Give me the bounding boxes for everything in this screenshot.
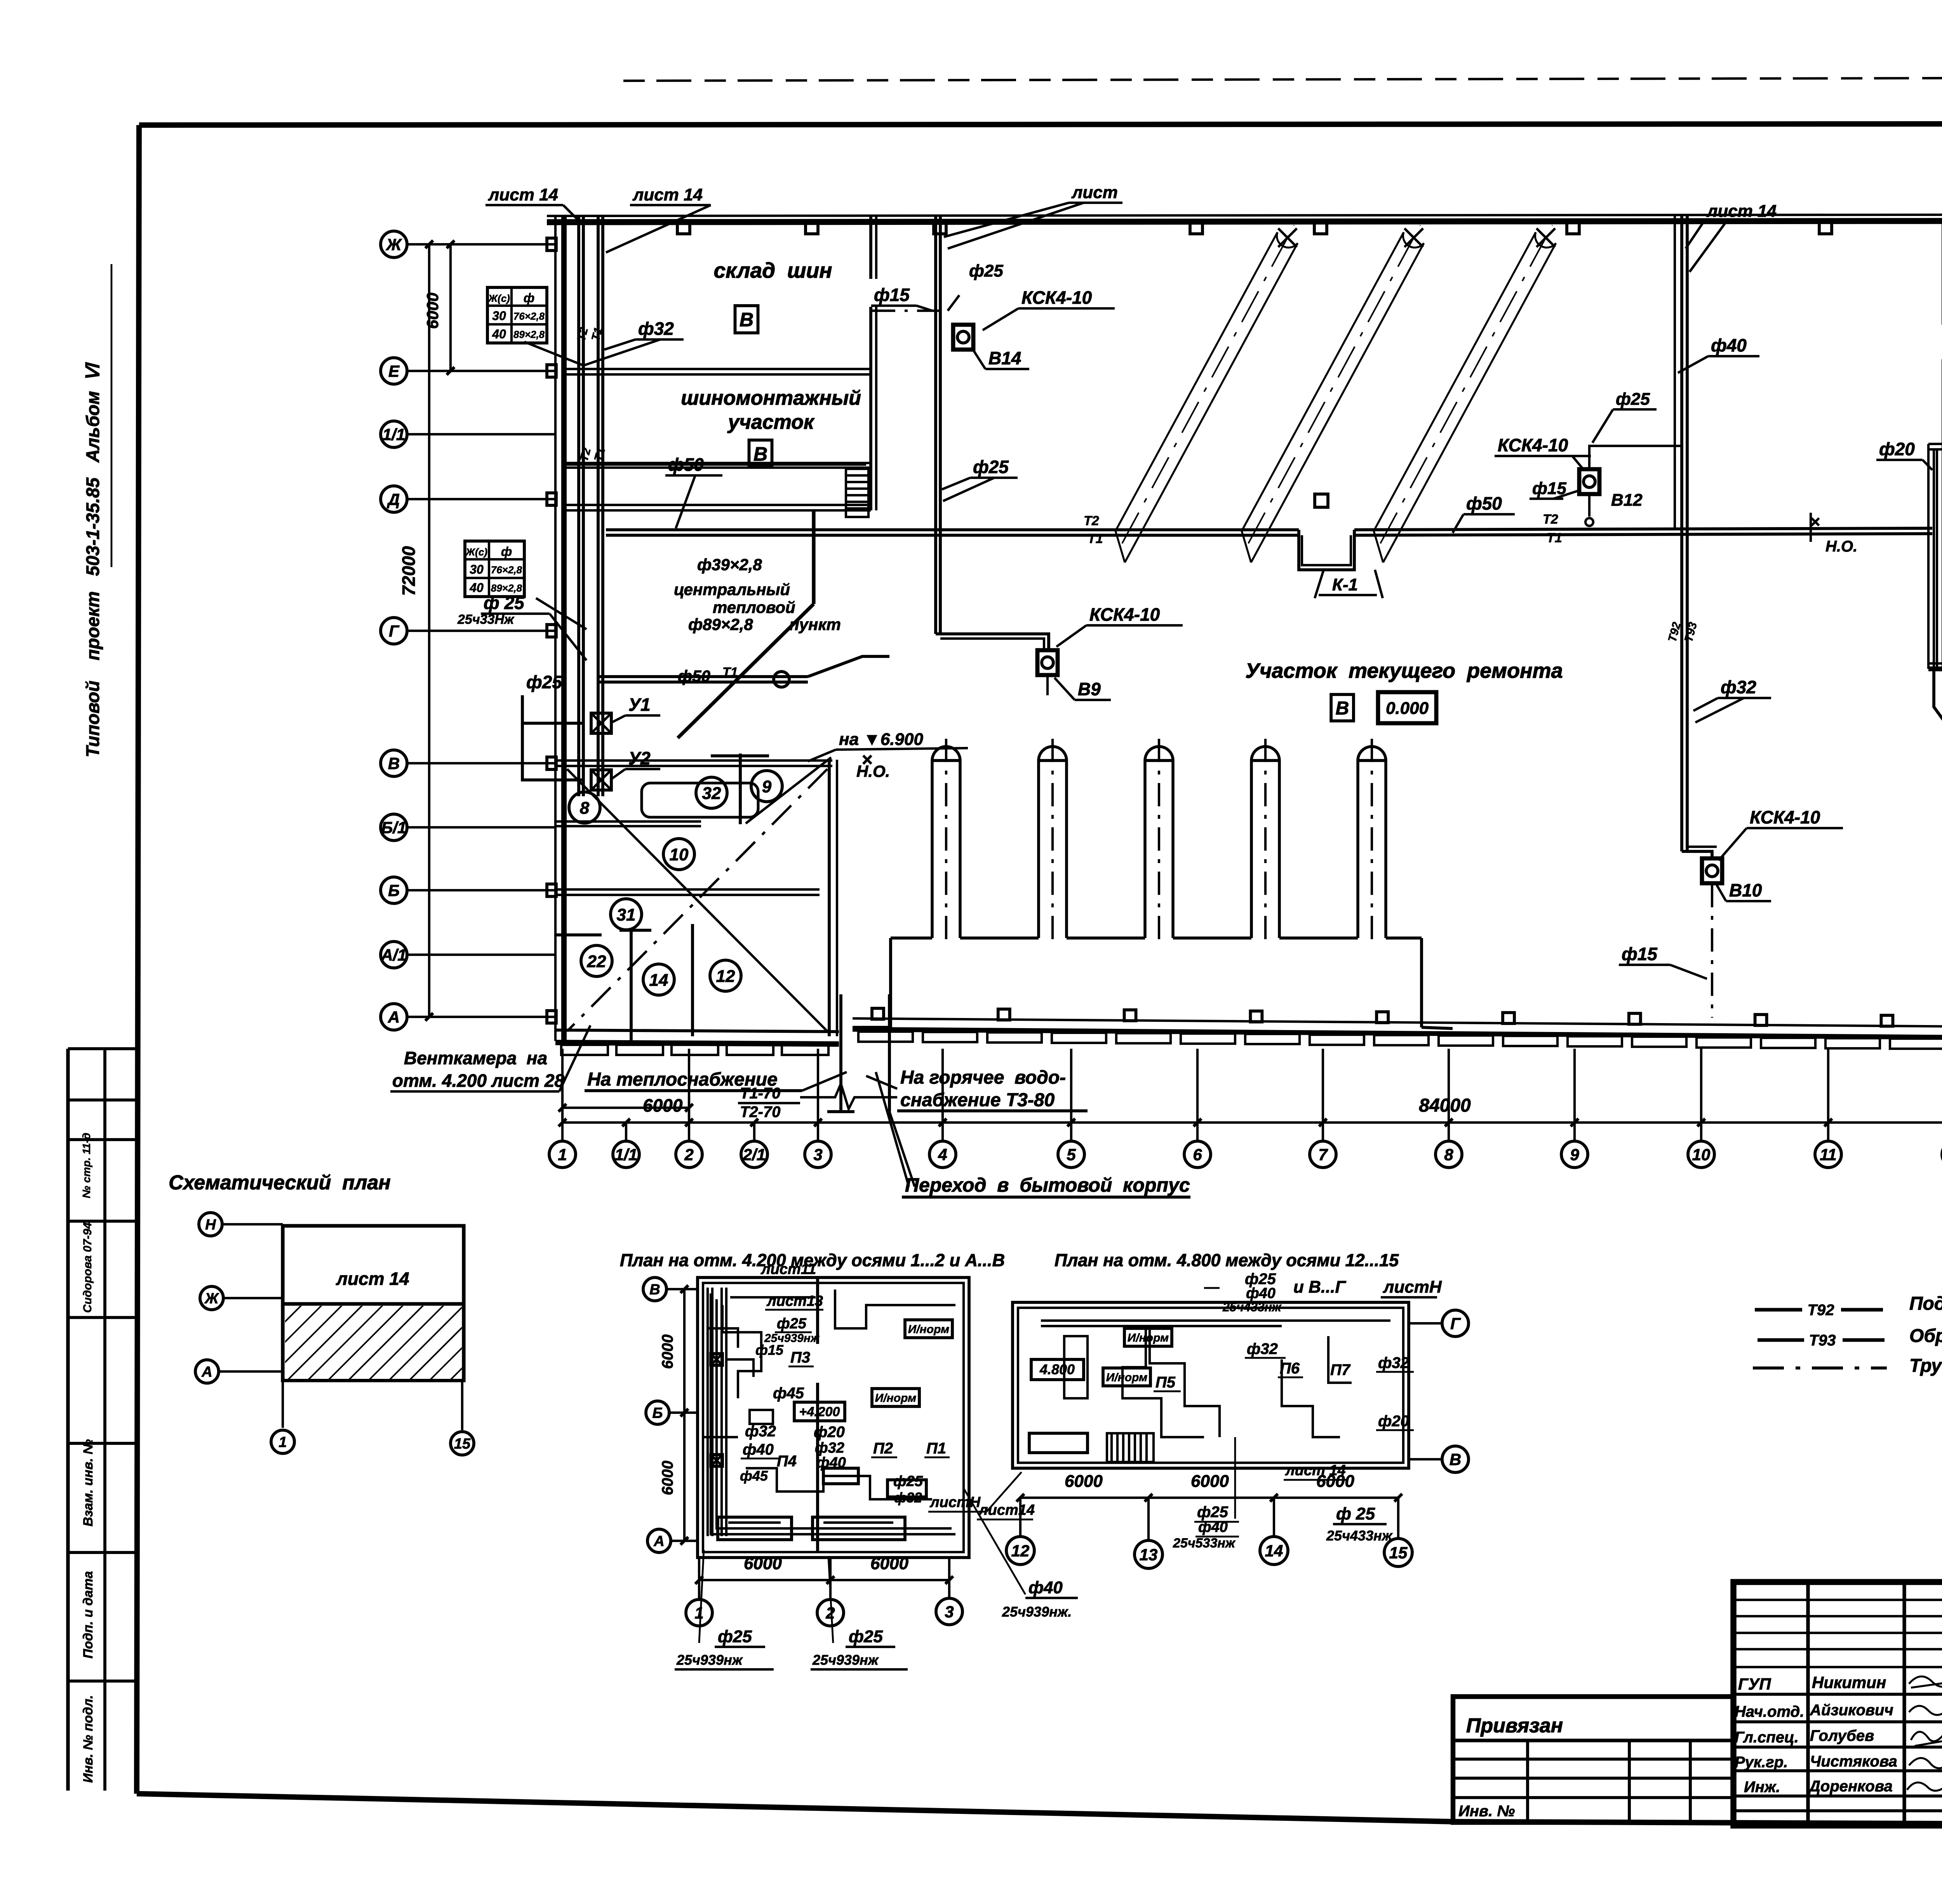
valve U2: [591, 770, 611, 790]
svg-text:Типовой проект 503-1-35.8: Типовой проект 503-1-35.85 Альбом Ⅵ: [82, 362, 103, 757]
plan 4.200 radiator benches at bottom: [718, 1517, 792, 1540]
svg-text:Б/1: Б/1: [381, 818, 407, 837]
svg-text:2: 2: [825, 1604, 835, 1622]
svg-text:ф25: ф25: [969, 261, 1003, 280]
service pits (5 tuning forks): [932, 747, 960, 938]
plan 4.800 bench bottom-left: [1029, 1433, 1088, 1453]
svg-text:ф32: ф32: [815, 1440, 844, 1456]
svg-text:15: 15: [454, 1436, 471, 1452]
border frame: [139, 124, 1942, 125]
svg-text:В: В: [1450, 1450, 1461, 1469]
room 22 top wall: [556, 933, 602, 936]
svg-text:КСК4-10: КСК4-10: [1498, 435, 1568, 455]
svg-text:ф25: ф25: [718, 1627, 752, 1646]
vertical riser pair to V9: [934, 216, 937, 634]
svg-text:ф32: ф32: [745, 1423, 776, 1440]
svg-text:ф20: ф20: [814, 1424, 845, 1441]
svg-text:ф32: ф32: [1721, 677, 1756, 697]
svg-text:Т1: Т1: [722, 665, 738, 680]
svg-text:Д: Д: [387, 490, 400, 508]
plan 4.200 pipe maze: [711, 1293, 955, 1534]
svg-text:25ч533нж: 25ч533нж: [1173, 1536, 1236, 1551]
sheet top dashed edge: [623, 77, 1942, 81]
svg-text:ф40: ф40: [1711, 335, 1747, 355]
schematic plan rectangle: [283, 1226, 464, 1380]
svg-text:В12: В12: [1611, 491, 1643, 510]
svg-text:лист 14: лист 14: [488, 185, 558, 204]
rounded duct box around f32/f40 labels: [642, 783, 758, 817]
svg-text:У1: У1: [628, 694, 651, 715]
svg-text:Трубопровод для выпуска воз: Трубопровод для выпуска воздуха: [1909, 1356, 1942, 1376]
svg-text:76×2,8: 76×2,8: [491, 564, 522, 576]
svg-text:4: 4: [938, 1145, 947, 1164]
svg-text:шиномонтажный: шиномонтажный: [681, 387, 861, 409]
svg-text:листН: листН: [1383, 1277, 1442, 1297]
title block outer: [1733, 1582, 1942, 1826]
svg-text:Участок текущего ремонта: Участок текущего ремонта: [1245, 659, 1563, 682]
svg-text:ф 25: ф 25: [1336, 1504, 1375, 1523]
svg-text:6000: 6000: [870, 1554, 908, 1573]
left axis circles: [381, 231, 407, 258]
svg-text:И/норм: И/норм: [908, 1323, 949, 1336]
privyazan table: [1453, 1697, 1733, 1822]
svg-text:К-1: К-1: [1332, 575, 1358, 594]
bottom wall of room block (axes 1-3): [555, 1030, 839, 1032]
svg-text:лист13: лист13: [766, 1293, 823, 1309]
svg-text:План на отм. 4.800 между осями: План на отм. 4.800 между осями 12...15: [1055, 1250, 1399, 1270]
room block: wall on axis V: [556, 759, 832, 762]
svg-text:13: 13: [1140, 1545, 1158, 1564]
svg-text:76×2,8: 76×2,8: [513, 310, 545, 322]
pit trench outline: [891, 936, 932, 940]
svg-text:ф45: ф45: [773, 1385, 804, 1402]
plan 4.800 dimension: [1020, 1497, 1398, 1499]
svg-text:В: В: [753, 443, 767, 465]
svg-text:В: В: [740, 309, 753, 331]
svg-text:ф25: ф25: [526, 672, 562, 692]
svg-text:Г: Г: [389, 622, 400, 640]
svg-text:А: А: [653, 1533, 664, 1550]
svg-text:П6: П6: [1280, 1360, 1300, 1377]
wall below shinomontazh: [564, 462, 871, 464]
svg-text:лист 14: лист 14: [1285, 1462, 1346, 1479]
svg-text:6000: 6000: [1065, 1472, 1103, 1491]
central heat point (CTP) walls: [812, 510, 815, 604]
svg-text:Ж(c): Ж(c): [465, 546, 487, 558]
medn room left wall x=5005: [1942, 218, 1942, 325]
svg-text:Рук.гр.: Рук.гр.: [1735, 1754, 1788, 1771]
main heating pipes T2/T1: [606, 528, 1299, 531]
svg-text:П5: П5: [1155, 1374, 1176, 1391]
svg-text:72000: 72000: [398, 546, 419, 596]
svg-text:КСК4-10: КСК4-10: [1750, 807, 1820, 827]
gate jamb marks on bottom wall: [872, 1008, 884, 1019]
svg-text:Ж(c): Ж(c): [487, 292, 510, 304]
svg-text:9: 9: [1570, 1145, 1579, 1164]
svg-text:10: 10: [1692, 1145, 1711, 1164]
svg-text:ГУП: ГУП: [1738, 1675, 1771, 1693]
room number circles: [569, 792, 600, 823]
svg-text:Подп. и дата: Подп. и дата: [81, 1571, 96, 1659]
svg-text:14: 14: [1265, 1542, 1283, 1560]
svg-text:89×2,8: 89×2,8: [513, 329, 545, 340]
I/norm boxes: [905, 1320, 952, 1338]
svg-text:89×2,8: 89×2,8: [491, 582, 522, 594]
svg-text:ф50: ф50: [668, 454, 704, 475]
wall on axis D: [564, 504, 871, 506]
svg-text:Никитин: Никитин: [1812, 1673, 1886, 1692]
plan 4.200 axis circles: [643, 1277, 666, 1301]
72000 / 6000 vertical dimensions: [428, 244, 430, 1017]
svg-text:6000: 6000: [1191, 1472, 1229, 1491]
svg-text:ф25: ф25: [777, 1316, 807, 1332]
svg-text:5: 5: [1067, 1145, 1076, 1164]
svg-text:А/1: А/1: [381, 946, 406, 964]
svg-text:лист 14: лист 14: [632, 185, 703, 204]
legend line T92: [1755, 1308, 1802, 1311]
room 8 bottom wall: [556, 820, 701, 823]
K-1 label: [1315, 570, 1324, 598]
main bottom wall (axes 3-15) with footing chain: [853, 1018, 1942, 1029]
wall on axis E: [564, 368, 871, 370]
svg-text:ф50: ф50: [1466, 493, 1502, 513]
pipe tables (2x): [487, 287, 547, 343]
svg-text:ф40: ф40: [1028, 1578, 1063, 1597]
passage (perekhod) walls going south: [839, 994, 842, 1112]
svg-text:6000: 6000: [659, 1335, 676, 1369]
svg-text:Т2: Т2: [1084, 513, 1099, 528]
risers T92/T93: [1680, 214, 1683, 851]
partition between rooms 32 and 9: [739, 754, 742, 824]
f40 riser and label: [1674, 214, 1676, 528]
svg-text:30: 30: [470, 562, 484, 576]
svg-text:Ж: Ж: [386, 235, 402, 254]
svg-text:ф32: ф32: [638, 318, 674, 339]
svg-text:Ж: Ж: [204, 1291, 219, 1307]
svg-text:Т2-70: Т2-70: [740, 1103, 781, 1121]
svg-text:Т2: Т2: [1543, 512, 1558, 527]
sklad zapchastei room walls: [1928, 442, 1942, 444]
room block: wall on axis B: [556, 888, 820, 891]
svg-text:Нач.отд.: Нач.отд.: [1735, 1703, 1804, 1720]
svg-text:1/1: 1/1: [383, 425, 405, 444]
svg-text:1: 1: [558, 1145, 567, 1164]
svg-text:А: А: [388, 1008, 400, 1026]
svg-text:П2: П2: [873, 1440, 893, 1457]
svg-text:И/норм: И/норм: [1128, 1331, 1169, 1344]
svg-text:П1: П1: [926, 1440, 946, 1457]
svg-text:25ч939нж.: 25ч939нж.: [1002, 1604, 1072, 1620]
svg-text:ф25: ф25: [1616, 390, 1650, 409]
svg-text:тепловой: тепловой: [713, 598, 795, 616]
svg-text:8: 8: [1444, 1145, 1453, 1164]
svg-text:центральный: центральный: [674, 580, 790, 599]
T-wall room 31: [619, 929, 651, 932]
svg-text:31: 31: [617, 905, 636, 924]
svg-text:Голубев: Голубев: [1810, 1727, 1874, 1744]
svg-text:Инж.: Инж.: [1744, 1779, 1780, 1796]
svg-text:Венткамера на: Венткамера на: [404, 1048, 547, 1068]
axis pilaster tabs on left wall: [547, 238, 556, 251]
svg-text:отм. 4.200 лист 28: отм. 4.200 лист 28: [392, 1070, 564, 1091]
svg-text:Н.О.: Н.О.: [1825, 538, 1857, 555]
svg-text:Чистякова: Чистякова: [1810, 1753, 1897, 1770]
svg-text:32: 32: [702, 784, 721, 803]
svg-text:Взам. инв. №: Взам. инв. №: [81, 1439, 96, 1526]
svg-text:40: 40: [492, 327, 506, 341]
svg-text:6000: 6000: [643, 1095, 683, 1116]
svg-text:6: 6: [1193, 1145, 1202, 1164]
svg-text:6000: 6000: [423, 292, 442, 329]
svg-text:листН: листН: [929, 1494, 981, 1511]
svg-text:84000: 84000: [1419, 1095, 1471, 1116]
svg-text:Гл.спец.: Гл.спец.: [1735, 1729, 1799, 1746]
svg-text:ф40: ф40: [816, 1455, 846, 1471]
svg-text:Обратный трубопровод нитрита: Обратный трубопровод нитрита натрия: [1909, 1326, 1942, 1346]
svg-text:7: 7: [1318, 1145, 1328, 1164]
svg-text:А: А: [201, 1364, 212, 1380]
building top wall: [547, 214, 1942, 216]
svg-text:2/1: 2/1: [743, 1145, 766, 1164]
svg-text:Б: Б: [653, 1405, 663, 1422]
svg-text:В: В: [388, 754, 400, 773]
svg-text:ф40: ф40: [743, 1441, 774, 1458]
svg-text:1: 1: [694, 1604, 703, 1622]
svg-text:У2: У2: [628, 748, 651, 768]
title block left grid: [1806, 1582, 1810, 1826]
svg-text:лист14: лист14: [978, 1502, 1035, 1518]
svg-text:22: 22: [587, 952, 606, 971]
svg-text:КСК4-10: КСК4-10: [1089, 604, 1160, 625]
svg-text:1: 1: [278, 1434, 287, 1451]
svg-text:лист11: лист11: [760, 1261, 816, 1277]
svg-text:Подающий трубопровод нитрита: Подающий трубопровод нитрита натрия: [1909, 1293, 1942, 1314]
svg-text:ф50: ф50: [678, 667, 710, 685]
legend dash-dot: [1753, 1366, 1887, 1370]
svg-text:9: 9: [762, 777, 772, 796]
svg-text:ф32: ф32: [894, 1490, 922, 1505]
svg-text:ф89×2,8: ф89×2,8: [688, 615, 753, 634]
svg-text:пункт: пункт: [789, 615, 841, 634]
svg-text:ф15: ф15: [874, 285, 910, 305]
plan 4.200 dimensions: [699, 1579, 949, 1581]
svg-text:Г: Г: [1450, 1314, 1461, 1333]
svg-text:склад шин: склад шин: [714, 258, 832, 282]
plan 4.200 left pipe bundle: [706, 1288, 709, 1536]
signatures squiggles: [1909, 1676, 1942, 1688]
svg-text:25ч433нж: 25ч433нж: [1326, 1528, 1393, 1544]
valve U1: [591, 713, 611, 733]
svg-text:лист: лист: [1071, 183, 1118, 202]
plan 4.800 stairs hatch: [1107, 1433, 1154, 1462]
svg-text:30: 30: [492, 309, 506, 323]
svg-text:лист 14: лист 14: [1706, 202, 1777, 221]
left stamp column: [68, 1047, 137, 1050]
CTP pipe runs: [598, 675, 808, 678]
svg-text:6000: 6000: [744, 1554, 782, 1573]
svg-text:ф: ф: [501, 545, 512, 559]
bottom axis circles 1..15: [549, 1141, 576, 1168]
svg-text:0.000: 0.000: [1386, 699, 1429, 718]
svg-text:25ч939нж: 25ч939нж: [676, 1652, 743, 1668]
svg-text:снабжение Т3-80: снабжение Т3-80: [900, 1090, 1055, 1110]
pilaster marks on top wall: [677, 222, 690, 234]
svg-text:Е: Е: [388, 362, 400, 380]
svg-text:В14: В14: [988, 348, 1021, 368]
svg-text:В10: В10: [1729, 880, 1762, 900]
svg-text:ф15: ф15: [1622, 944, 1658, 964]
f20 riser on storage west wall: [1936, 449, 1938, 669]
svg-text:ф25: ф25: [893, 1473, 923, 1490]
svg-text:Привязан: Привязан: [1466, 1714, 1563, 1737]
svg-text:3: 3: [813, 1145, 822, 1164]
svg-text:10: 10: [670, 845, 689, 864]
svg-text:Т1-70: Т1-70: [740, 1085, 781, 1102]
plan 4.200 walls: [698, 1277, 969, 1558]
plan 4.800 walls: [1013, 1302, 1409, 1468]
building left wall: [554, 216, 557, 1041]
svg-text:ф15: ф15: [755, 1342, 784, 1358]
svg-text:и В...Г: и В...Г: [1293, 1277, 1347, 1297]
svg-text:ф32: ф32: [1247, 1340, 1278, 1358]
svg-text:25ч939нж: 25ч939нж: [812, 1652, 879, 1668]
frame bottom (slightly skewed like the scan): [137, 1794, 1942, 1826]
svg-text:25ч433нж: 25ч433нж: [1222, 1300, 1282, 1314]
svg-text:2: 2: [684, 1145, 693, 1164]
svg-text:Т1: Т1: [1547, 531, 1562, 545]
svg-text:1/1: 1/1: [615, 1145, 637, 1164]
84000 dimension line: [562, 1121, 1942, 1124]
svg-text:ф40: ф40: [1246, 1285, 1276, 1302]
svg-text:участок: участок: [727, 411, 815, 433]
svg-text:×: ×: [861, 750, 872, 770]
svg-text:40: 40: [469, 581, 484, 595]
svg-text:4.800: 4.800: [1039, 1361, 1075, 1377]
svg-text:6000: 6000: [659, 1461, 676, 1495]
svg-text:И/норм: И/норм: [1106, 1371, 1147, 1384]
svg-text:ф40: ф40: [1198, 1519, 1228, 1535]
svg-text:ф25: ф25: [1197, 1504, 1229, 1521]
plan 4.800 axis circles: [1442, 1310, 1469, 1337]
svg-text:ф45: ф45: [740, 1468, 768, 1484]
svg-text:На горячее водо-: На горячее водо-: [900, 1067, 1066, 1088]
svg-text:Т92: Т92: [1808, 1302, 1834, 1319]
svg-text:15: 15: [1389, 1544, 1408, 1562]
svg-text:+4.200: +4.200: [799, 1405, 840, 1419]
svg-text:Переход в бытовой корпус: Переход в бытовой корпус: [905, 1174, 1190, 1196]
schematic plan axis circles: [199, 1213, 222, 1236]
svg-text:№ стр. 11-д: № стр. 11-д: [80, 1133, 92, 1198]
svg-text:Инв. №: Инв. №: [1458, 1803, 1515, 1820]
svg-text:ф39×2,8: ф39×2,8: [697, 555, 762, 574]
schematic verticals to circles 1 and 15: [282, 1226, 284, 1428]
svg-text:П4: П4: [777, 1453, 797, 1470]
svg-text:Т1: Т1: [1088, 531, 1103, 546]
svg-text:П3: П3: [790, 1349, 810, 1366]
svg-text:Н: Н: [205, 1217, 216, 1233]
riser pipes cluster from sheet 14: [577, 216, 580, 796]
svg-text:12: 12: [1011, 1542, 1030, 1560]
svg-text:Схематический план: Схематический план: [169, 1171, 391, 1194]
elbow to valve B10: [1682, 851, 1712, 859]
svg-text:лист 14: лист 14: [336, 1269, 409, 1289]
partition x=2242 (axis 3) top part: [869, 216, 872, 279]
svg-text:ф20: ф20: [1378, 1413, 1409, 1430]
svg-text:3: 3: [945, 1603, 954, 1621]
svg-text:на ▼6.900: на ▼6.900: [839, 730, 923, 749]
svg-text:ф25: ф25: [973, 457, 1009, 477]
stairs near axis D: [846, 469, 868, 517]
svg-text:В: В: [649, 1282, 660, 1298]
svg-text:Б: Б: [388, 881, 400, 900]
svg-text:И/норм: И/норм: [875, 1392, 916, 1405]
svg-text:ф25: ф25: [849, 1627, 883, 1646]
svg-text:П7: П7: [1330, 1361, 1351, 1378]
svg-text:12: 12: [716, 967, 735, 986]
svg-text:14: 14: [649, 971, 668, 990]
svg-text:Доренкова: Доренкова: [1808, 1778, 1893, 1795]
svg-text:8: 8: [580, 799, 590, 818]
svg-text:ф: ф: [524, 291, 534, 305]
plan 4.800 labels inner: [1031, 1359, 1084, 1380]
svg-text:В: В: [1336, 698, 1349, 719]
svg-text:11: 11: [1820, 1145, 1837, 1164]
svg-text:Инв. № подл.: Инв. № подл.: [81, 1695, 96, 1783]
ventilation diagonals across room block: [567, 769, 827, 1031]
svg-text:В9: В9: [1078, 679, 1101, 699]
svg-text:Айзикович: Айзикович: [1810, 1702, 1893, 1719]
plan 4.800 pipe maze: [1041, 1319, 1390, 1322]
svg-text:Т93: Т93: [1809, 1332, 1836, 1349]
vertical partition between hall and passage: [828, 760, 831, 1036]
svg-text:ф20: ф20: [1879, 439, 1915, 459]
svg-text:Сидорова 07-94: Сидорова 07-94: [81, 1222, 94, 1313]
break symbol on passage: [800, 1084, 897, 1109]
legend line T93: [1758, 1338, 1804, 1342]
svg-text:КСК4-10: КСК4-10: [1021, 287, 1092, 308]
three diagonal crane/skylight bands: [1115, 232, 1298, 562]
svg-text:ф32: ф32: [1378, 1354, 1409, 1371]
partition room 14/12: [691, 924, 694, 1036]
